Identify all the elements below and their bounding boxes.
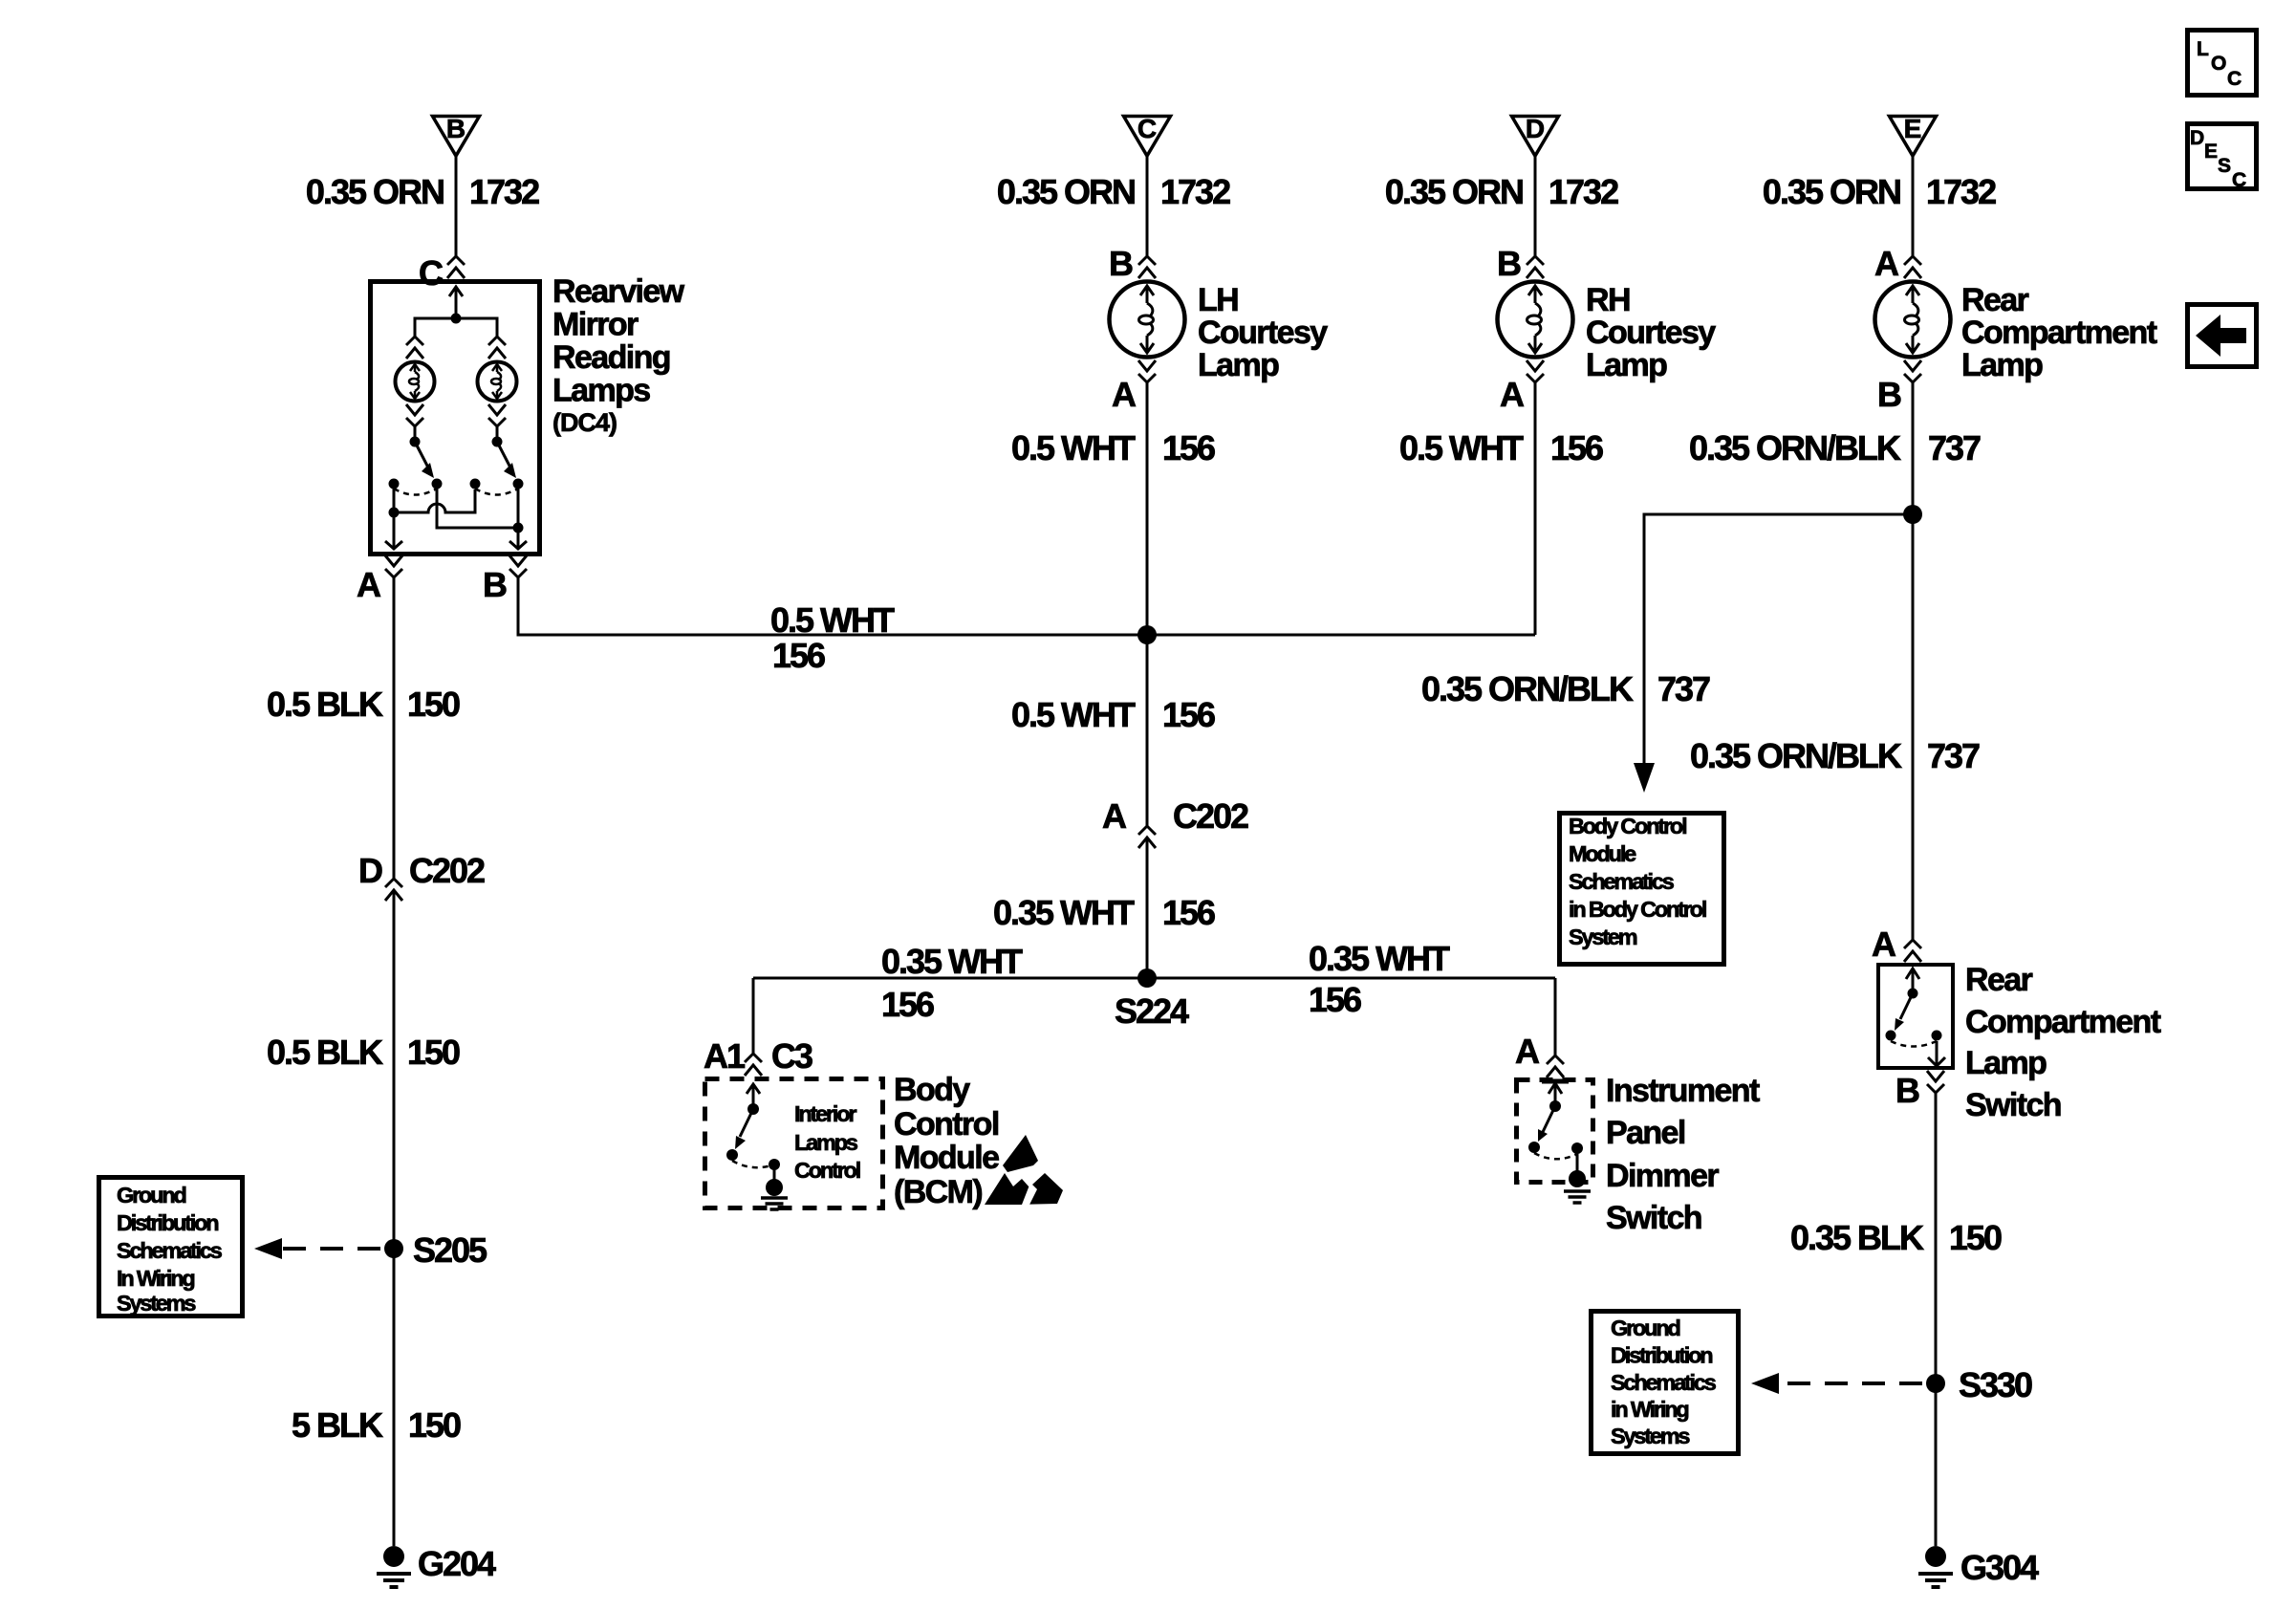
rear switch pivot dot [1908, 989, 1918, 999]
svg-text:Mirror: Mirror [552, 307, 639, 343]
svg-text:RH: RH [1586, 282, 1630, 318]
svg-text:C: C [419, 253, 444, 293]
svg-text:Systems: Systems [1611, 1424, 1690, 1448]
wire contact2 down and across [437, 489, 518, 528]
svg-text:S330: S330 [1959, 1365, 2032, 1404]
svg-text:737: 737 [1657, 669, 1710, 708]
svg-text:C202: C202 [409, 851, 485, 890]
svg-text:0.35 ORN/BLK: 0.35 ORN/BLK [1421, 669, 1634, 708]
ESD sensitive symbol lower [985, 1173, 1063, 1205]
svg-text:0.35 ORN/BLK: 0.35 ORN/BLK [1690, 736, 1902, 775]
svg-text:Module: Module [1569, 841, 1636, 866]
svg-text:0.5 WHT: 0.5 WHT [1011, 428, 1136, 468]
page connector triangle D [1512, 114, 1559, 156]
svg-text:B: B [1895, 1071, 1919, 1110]
svg-text:S224: S224 [1115, 991, 1189, 1031]
body control module label [894, 1072, 999, 1210]
right switch blade [497, 442, 511, 469]
svg-text:Instrument: Instrument [1606, 1073, 1760, 1109]
svg-text:A: A [1515, 1032, 1540, 1071]
wire from triangle B to reading lamps pin C [455, 156, 458, 256]
wire label 0.35 ORN/BLK 737 (branch) [1421, 669, 1710, 708]
svg-text:A: A [1872, 925, 1896, 964]
connector below pin B [509, 555, 527, 577]
svg-text:LH: LH [1198, 282, 1238, 318]
wire junction down to C202 [1146, 635, 1149, 826]
svg-text:Rear: Rear [1961, 282, 2029, 318]
crossover wire with hop [394, 490, 475, 512]
svg-text:A: A [1500, 375, 1525, 414]
svg-text:156: 156 [1162, 893, 1215, 932]
svg-text:A: A [1112, 375, 1137, 414]
wire label 0.5 WHT 156 (RH) [1399, 428, 1603, 468]
RH courtesy lamp bulb [1498, 282, 1573, 358]
svg-text:B: B [1109, 244, 1133, 283]
svg-text:B: B [483, 565, 507, 604]
splice dot on ORN/BLK wire [1903, 505, 1922, 524]
dimmer internal contact bar [1542, 1079, 1569, 1084]
svg-text:150: 150 [1949, 1218, 2002, 1257]
ground G204 symbol [377, 1546, 411, 1587]
wire label 0.35 WHT 156 (below C202) [993, 893, 1215, 932]
svg-text:Distribution: Distribution [117, 1210, 218, 1235]
wire label 0.35 ORN 1732 (branch C) [997, 172, 1230, 211]
svg-text:B: B [1497, 244, 1521, 283]
connector C202 pin A label [1102, 796, 1248, 836]
wire contact4 down to B [517, 489, 520, 541]
wire label 0.35 ORN/BLK 737 (lower) [1690, 736, 1980, 775]
svg-text:A: A [357, 565, 381, 604]
svg-text:D: D [1526, 114, 1545, 143]
instrument panel dimmer switch dashed box [1517, 1080, 1593, 1183]
body control module schematics note box [1560, 814, 1724, 965]
svg-text:0.5 BLK: 0.5 BLK [267, 1033, 383, 1072]
rear switch blade [1900, 993, 1913, 1019]
svg-text:0.35 ORN/BLK: 0.35 ORN/BLK [1689, 428, 1901, 468]
wire label 0.35 WHT 156 (left branch) [881, 942, 1023, 1024]
BCM switch blade [740, 1109, 753, 1137]
connector below rear switch pin B [1927, 1071, 1944, 1093]
dimmer switch right contact dot [1571, 1142, 1583, 1154]
svg-text:156: 156 [1309, 980, 1361, 1019]
rear switch output arrow [1928, 1041, 1945, 1066]
svg-text:Lamps: Lamps [794, 1130, 858, 1155]
rear switch left contact dot [1886, 1031, 1896, 1041]
svg-text:156: 156 [1550, 428, 1603, 468]
reading lamps label [552, 273, 685, 437]
svg-text:0.35 BLK: 0.35 BLK [1790, 1218, 1924, 1257]
svg-text:Ground: Ground [117, 1183, 185, 1207]
svg-text:Switch: Switch [1965, 1087, 2061, 1123]
svg-text:B: B [446, 114, 466, 143]
wire label 0.35 ORN/BLK 737 (upper) [1689, 428, 1981, 468]
wire lamp to left switch pivot [414, 426, 417, 442]
junction dot on A wire [389, 508, 400, 518]
svg-text:B: B [1877, 375, 1901, 414]
svg-text:A: A [1874, 244, 1899, 283]
svg-text:Panel: Panel [1606, 1115, 1685, 1151]
svg-text:0.35 ORN: 0.35 ORN [306, 172, 444, 211]
svg-text:0.35 WHT: 0.35 WHT [993, 893, 1135, 932]
dashed reference arrow to S205 [254, 1238, 380, 1259]
rear compartment lamp bulb [1875, 282, 1951, 358]
left switch travel dashed arc [394, 489, 437, 495]
svg-text:S: S [2218, 155, 2231, 177]
svg-text:C: C [1137, 114, 1157, 143]
ground G304 symbol [1918, 1546, 1953, 1587]
wire lamp to right switch pivot [496, 426, 499, 442]
wire C202 down to splice S224 [1146, 838, 1149, 978]
left switch pivot dot [410, 437, 421, 447]
right switch pivot dot [492, 437, 503, 447]
back arrow legend box [2188, 305, 2257, 367]
wire contact1 down to A [393, 489, 396, 541]
svg-text:Lamp: Lamp [1198, 347, 1279, 383]
ORN/BLK branch wire to BCM reference [1644, 514, 1913, 763]
BCM switch right contact dot [769, 1159, 780, 1170]
BCM switch left contact dot [726, 1149, 738, 1161]
svg-text:Courtesy: Courtesy [1198, 315, 1328, 351]
svg-text:1732: 1732 [1549, 172, 1618, 211]
splice S205 dot [384, 1239, 403, 1258]
rear compartment lamp label [1961, 282, 2157, 383]
svg-text:156: 156 [1162, 428, 1215, 468]
svg-text:Ground: Ground [1611, 1316, 1679, 1340]
svg-text:(DC4): (DC4) [552, 408, 617, 437]
svg-text:Lamp: Lamp [1965, 1045, 2047, 1081]
ground distribution note box right [1592, 1312, 1739, 1454]
wire from triangle D to RH courtesy lamp [1534, 156, 1537, 256]
dimmer internal ground stem [1576, 1148, 1579, 1173]
svg-text:Schematics: Schematics [117, 1238, 223, 1263]
wire label 0.35 BLK 150 [1790, 1218, 2002, 1257]
svg-text:in Wiring: in Wiring [1611, 1397, 1688, 1422]
interior lamps control label [794, 1101, 860, 1183]
svg-text:156: 156 [881, 985, 934, 1024]
svg-text:in Body Control: in Body Control [1569, 897, 1706, 922]
svg-text:Schematics: Schematics [1569, 869, 1675, 894]
wire rear switch to ground G304 [1935, 1093, 1938, 1546]
BCM internal ground bars [761, 1198, 788, 1209]
body control module dashed box [705, 1079, 883, 1208]
svg-text:Lamps: Lamps [552, 373, 650, 409]
reading lamps internal feed arrow [449, 287, 463, 318]
wire label 0.35 ORN 1732 (branch D) [1385, 172, 1618, 211]
arrow to pin A [385, 541, 402, 549]
BCM switch pivot dot [747, 1103, 759, 1115]
wire label 0.35 WHT 156 (right branch) [1309, 939, 1450, 1019]
ground distribution note box left [99, 1178, 243, 1316]
svg-text:1732: 1732 [1160, 172, 1230, 211]
svg-text:G204: G204 [418, 1544, 496, 1583]
connector at RH lamp pin B [1527, 256, 1544, 278]
wire S224 to dimmer switch pin A [1554, 978, 1557, 1055]
wire LH lamp down to junction [1146, 382, 1149, 635]
connector below right reading lamp [488, 404, 506, 426]
rear switch internal feed arrow [1906, 968, 1919, 993]
svg-text:1732: 1732 [1926, 172, 1996, 211]
connector at rear lamp pin B [1904, 360, 1921, 382]
rear compartment lamp switch box [1878, 965, 1953, 1068]
wire from triangle E to rear compartment lamp [1912, 156, 1915, 256]
svg-text:5 BLK: 5 BLK [292, 1405, 383, 1445]
connector at LH lamp pin B [1138, 256, 1156, 278]
svg-text:Body: Body [894, 1072, 970, 1108]
svg-text:C3: C3 [771, 1036, 812, 1076]
svg-text:150: 150 [407, 1033, 460, 1072]
wire label 0.5 WHT 156 (mid) [1011, 695, 1215, 734]
svg-text:0.35 ORN: 0.35 ORN [1763, 172, 1900, 211]
svg-text:Interior: Interior [794, 1101, 856, 1126]
svg-text:0.5 WHT: 0.5 WHT [770, 600, 895, 640]
svg-text:150: 150 [407, 685, 460, 724]
dimmer internal feed arrow [1549, 1083, 1562, 1106]
svg-text:0.35 WHT: 0.35 WHT [1309, 939, 1450, 978]
svg-text:C: C [2232, 169, 2246, 191]
wire label 5 BLK 150 [292, 1405, 461, 1445]
svg-text:E: E [2204, 141, 2218, 163]
reading lamps internal junction [451, 314, 462, 324]
bus junction dot [1137, 625, 1157, 644]
arrow to pin B [509, 541, 527, 549]
wire pin A down to ground G204 [393, 577, 396, 1546]
svg-text:Compartment: Compartment [1961, 315, 2157, 351]
connector below left reading lamp [406, 404, 423, 426]
BCM switch travel dashed arc [732, 1161, 774, 1167]
svg-text:Switch: Switch [1606, 1200, 1701, 1236]
svg-text:0.35 ORN: 0.35 ORN [997, 172, 1135, 211]
svg-text:C: C [2227, 68, 2242, 90]
svg-text:Compartment: Compartment [1965, 1004, 2161, 1040]
left switch blade [415, 442, 429, 469]
splice S224 dot [1137, 968, 1157, 988]
connector below pin A [385, 555, 402, 577]
svg-text:Schematics: Schematics [1611, 1370, 1717, 1395]
rear switch right contact dot [1932, 1031, 1942, 1041]
connector at rear switch pin A [1904, 940, 1921, 962]
svg-text:Rearview: Rearview [552, 273, 685, 310]
BCM internal feed arrow [747, 1084, 760, 1109]
reading lamps internal feed tee [415, 318, 497, 337]
svg-text:Control: Control [894, 1106, 999, 1142]
svg-text:156: 156 [772, 636, 825, 675]
wire RH lamp down to bus [1534, 382, 1537, 635]
svg-text:L: L [2197, 38, 2209, 60]
svg-text:A: A [1102, 796, 1127, 836]
0.5 WHT bus wire [518, 577, 1535, 635]
svg-text:Lamp: Lamp [1961, 347, 2043, 383]
svg-text:0.5 BLK: 0.5 BLK [267, 685, 383, 724]
BCM pin A1 C3 labels [704, 1036, 812, 1076]
wire label 0.5 BLK 150 upper [267, 685, 460, 724]
right reading lamp bulb [478, 362, 517, 402]
wire label 0.35 ORN 1732 (branch E) [1763, 172, 1996, 211]
svg-text:C202: C202 [1173, 796, 1248, 836]
page connector triangle B [433, 114, 480, 156]
connector C202 pin D label [358, 851, 485, 890]
DESC legend box [2188, 124, 2257, 192]
switch contact dots row [389, 479, 524, 490]
svg-text:D: D [2190, 127, 2204, 149]
right switch travel dashed arc [475, 489, 518, 495]
rear compartment lamp switch label [1965, 962, 2161, 1123]
connector at LH lamp pin A [1138, 360, 1156, 382]
dimmer switch pivot dot [1549, 1100, 1561, 1112]
bus wire label 0.5 WHT 156 [770, 600, 895, 675]
svg-text:Dimmer: Dimmer [1606, 1158, 1719, 1194]
rear switch travel dashed arc [1891, 1041, 1937, 1047]
BCM internal ground ball [766, 1179, 783, 1196]
dimmer switch blade [1543, 1106, 1555, 1132]
svg-text:0.5 WHT: 0.5 WHT [1011, 695, 1136, 734]
junction dot on B wire [513, 523, 524, 533]
RH courtesy lamp label [1586, 282, 1716, 383]
connector at RH lamp pin A [1527, 360, 1544, 382]
connector at rear lamp pin A [1904, 256, 1921, 278]
svg-text:G304: G304 [1960, 1548, 2039, 1587]
inline connector C202 on mid wire [1138, 826, 1156, 848]
BCM internal ground stem and ball [773, 1164, 776, 1182]
svg-text:(BCM): (BCM) [894, 1174, 982, 1210]
rearview mirror reading lamps component box [371, 282, 540, 555]
svg-text:A1: A1 [704, 1036, 746, 1076]
dashed reference arrow to S330 [1751, 1373, 1922, 1394]
svg-text:Systems: Systems [117, 1291, 196, 1316]
svg-text:D: D [358, 851, 382, 890]
svg-text:0.35 ORN: 0.35 ORN [1385, 172, 1523, 211]
svg-text:0.5 WHT: 0.5 WHT [1399, 428, 1524, 468]
LH courtesy lamp label [1198, 282, 1328, 383]
svg-text:E: E [1904, 114, 1922, 143]
splice S330 dot [1926, 1374, 1945, 1393]
wire S224 to BCM pin A1 [752, 978, 755, 1054]
wire label 0.35 ORN 1732 (branch B) [306, 172, 539, 211]
svg-text:Control: Control [794, 1158, 860, 1183]
svg-text:Courtesy: Courtesy [1586, 315, 1716, 351]
arrowhead into BCM reference box [1634, 763, 1655, 793]
svg-text:1732: 1732 [469, 172, 539, 211]
svg-text:Lamp: Lamp [1586, 347, 1667, 383]
dimmer internal ground bars [1564, 1191, 1591, 1203]
connector above right reading lamp [488, 337, 506, 359]
inline connector C202 on left wire [385, 879, 402, 901]
wire label 0.5 BLK 150 lower [267, 1033, 460, 1072]
svg-text:Distribution: Distribution [1611, 1343, 1712, 1368]
svg-text:Module: Module [894, 1140, 999, 1176]
svg-text:Reading: Reading [552, 339, 670, 376]
left reading lamp bulb [396, 362, 435, 402]
svg-text:S205: S205 [413, 1230, 487, 1270]
svg-text:Body Control: Body Control [1569, 814, 1686, 838]
svg-text:0.35 WHT: 0.35 WHT [881, 942, 1023, 981]
svg-text:737: 737 [1928, 428, 1981, 468]
page connector triangle C [1124, 114, 1171, 156]
svg-text:System: System [1569, 925, 1637, 949]
connector above left reading lamp [406, 337, 423, 359]
connector at dimmer pin A [1547, 1055, 1564, 1077]
dimmer switch left contact dot [1528, 1142, 1540, 1153]
instrument panel dimmer switch label [1606, 1073, 1760, 1236]
connector at reading lamps pin C [447, 256, 465, 278]
svg-text:150: 150 [408, 1405, 461, 1445]
LOC legend box [2188, 31, 2257, 96]
wire from triangle C to LH courtesy lamp [1146, 156, 1149, 256]
svg-text:Rear: Rear [1965, 962, 2033, 998]
wire rear lamp down to switch pin A [1912, 382, 1915, 940]
svg-text:In Wiring: In Wiring [117, 1266, 194, 1291]
LH courtesy lamp bulb [1110, 282, 1185, 358]
page connector triangle E [1890, 114, 1937, 156]
wire label 0.5 WHT 156 (LH) [1011, 428, 1215, 468]
connector at BCM pin A1 [745, 1054, 762, 1076]
svg-text:O: O [2211, 53, 2226, 75]
svg-text:737: 737 [1927, 736, 1980, 775]
ESD sensitive symbol upper [1003, 1135, 1038, 1172]
svg-text:156: 156 [1162, 695, 1215, 734]
dimmer switch travel dashed arc [1534, 1153, 1577, 1159]
dimmer internal ground ball [1569, 1170, 1586, 1187]
S224 bus wire [753, 977, 1555, 980]
